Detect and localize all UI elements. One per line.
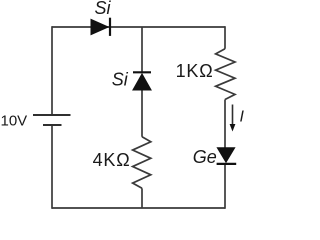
wire top — [52, 26, 225, 28]
svg-text:Si: Si — [95, 0, 112, 18]
svg-text:4KΩ: 4KΩ — [93, 150, 131, 170]
svg-text:1KΩ: 1KΩ — [176, 61, 214, 81]
wire left lower — [51, 125, 53, 209]
resistor R2 4KΩ — [133, 137, 151, 189]
wire right upper — [224, 26, 226, 49]
battery V1 10V — [33, 115, 71, 125]
current arrow I — [230, 105, 236, 132]
wire middle lower — [141, 188, 143, 208]
wire right between resistor and diode — [224, 100, 226, 149]
diode D3 Ge (right, pointing down) — [217, 148, 237, 164]
svg-text:Ge: Ge — [193, 147, 217, 167]
wire right lower — [224, 164, 226, 209]
svg-text:10V: 10V — [1, 112, 28, 129]
svg-text:Si: Si — [112, 70, 129, 90]
wire middle upper — [141, 27, 143, 73]
svg-text:I: I — [240, 109, 245, 126]
resistor R1 1KΩ — [216, 49, 235, 100]
wire left upper — [51, 26, 53, 115]
wire middle between diode and resistor — [141, 90, 143, 137]
diode D1 Si (top, anode left) — [91, 18, 110, 36]
diode D2 Si (middle, pointing up) — [133, 72, 151, 90]
wire bottom — [52, 207, 225, 209]
